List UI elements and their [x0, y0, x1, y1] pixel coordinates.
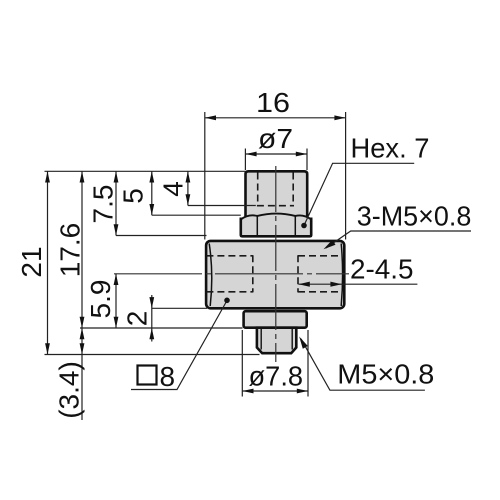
- svg-text:17.6: 17.6: [55, 223, 86, 278]
- label M5x0.8 with leader arrow: [299, 337, 434, 391]
- svg-text:4: 4: [158, 181, 189, 197]
- svg-text:5.9: 5.9: [85, 280, 116, 319]
- top extension line (top of part): [45, 170, 246, 172]
- svg-text:ø7: ø7: [258, 123, 293, 154]
- dimension o7 (stud diameter): [245, 123, 307, 170]
- extension line at 7.5 bottom (hex bottom): [116, 235, 207, 237]
- svg-text:Hex. 7: Hex. 7: [351, 133, 430, 164]
- svg-text:5: 5: [118, 188, 149, 204]
- hidden right side port (dashed): [298, 255, 339, 292]
- svg-text:2: 2: [122, 311, 153, 327]
- dimension 5.9: [85, 274, 118, 328]
- dimension 4: [158, 171, 191, 205]
- svg-text:2-4.5: 2-4.5: [350, 254, 414, 285]
- svg-text:7.5: 7.5: [88, 185, 119, 224]
- extension line at flange bottom: [80, 327, 243, 329]
- svg-text:(3.4): (3.4): [53, 361, 84, 419]
- top stud (male port boss): [246, 171, 308, 220]
- dimension 2 (arrows outside): [122, 295, 155, 342]
- svg-text:ø7.8: ø7.8: [249, 361, 304, 392]
- svg-text:M5×0.8: M5×0.8: [337, 359, 434, 390]
- svg-text:8: 8: [160, 361, 176, 392]
- label square-8 with leader dot: [131, 298, 230, 393]
- svg-text:3-M5×0.8: 3-M5×0.8: [357, 201, 472, 232]
- bottom stud (M5 thread): [257, 328, 296, 354]
- bottom flange (round boss o7.8): [244, 311, 307, 328]
- extension line at 2 top (body bottom): [152, 307, 207, 309]
- hidden thread hole in top stud (dashed): [257, 173, 294, 206]
- label 2-4.5 with depth arrows: [298, 254, 417, 287]
- dimension o7.8 (flange diameter): [242, 330, 308, 397]
- horizontal centerline: [114, 273, 349, 275]
- vertical centerline: [275, 166, 277, 362]
- svg-text:21: 21: [16, 246, 47, 277]
- hex nut: [241, 214, 311, 237]
- label 3-M5x0.8 with leader arrow: [324, 201, 472, 250]
- hidden left side port (dashed): [206, 255, 252, 292]
- dimension 7.5: [88, 171, 119, 235]
- extension line at 5 bottom (hex top): [152, 214, 241, 216]
- label Hex. 7 with leader dot: [301, 133, 429, 229]
- svg-text:16: 16: [256, 87, 290, 118]
- dimension 17.6: [55, 171, 86, 328]
- dimension (3.4): [53, 328, 84, 420]
- dimension 21 (overall height): [16, 171, 50, 354]
- dimension 5: [118, 171, 155, 215]
- main square body: [206, 241, 344, 308]
- extension line at part bottom: [45, 354, 260, 356]
- dimension 16 (top width): [205, 87, 346, 240]
- extension line at 4 bottom: [188, 205, 256, 207]
